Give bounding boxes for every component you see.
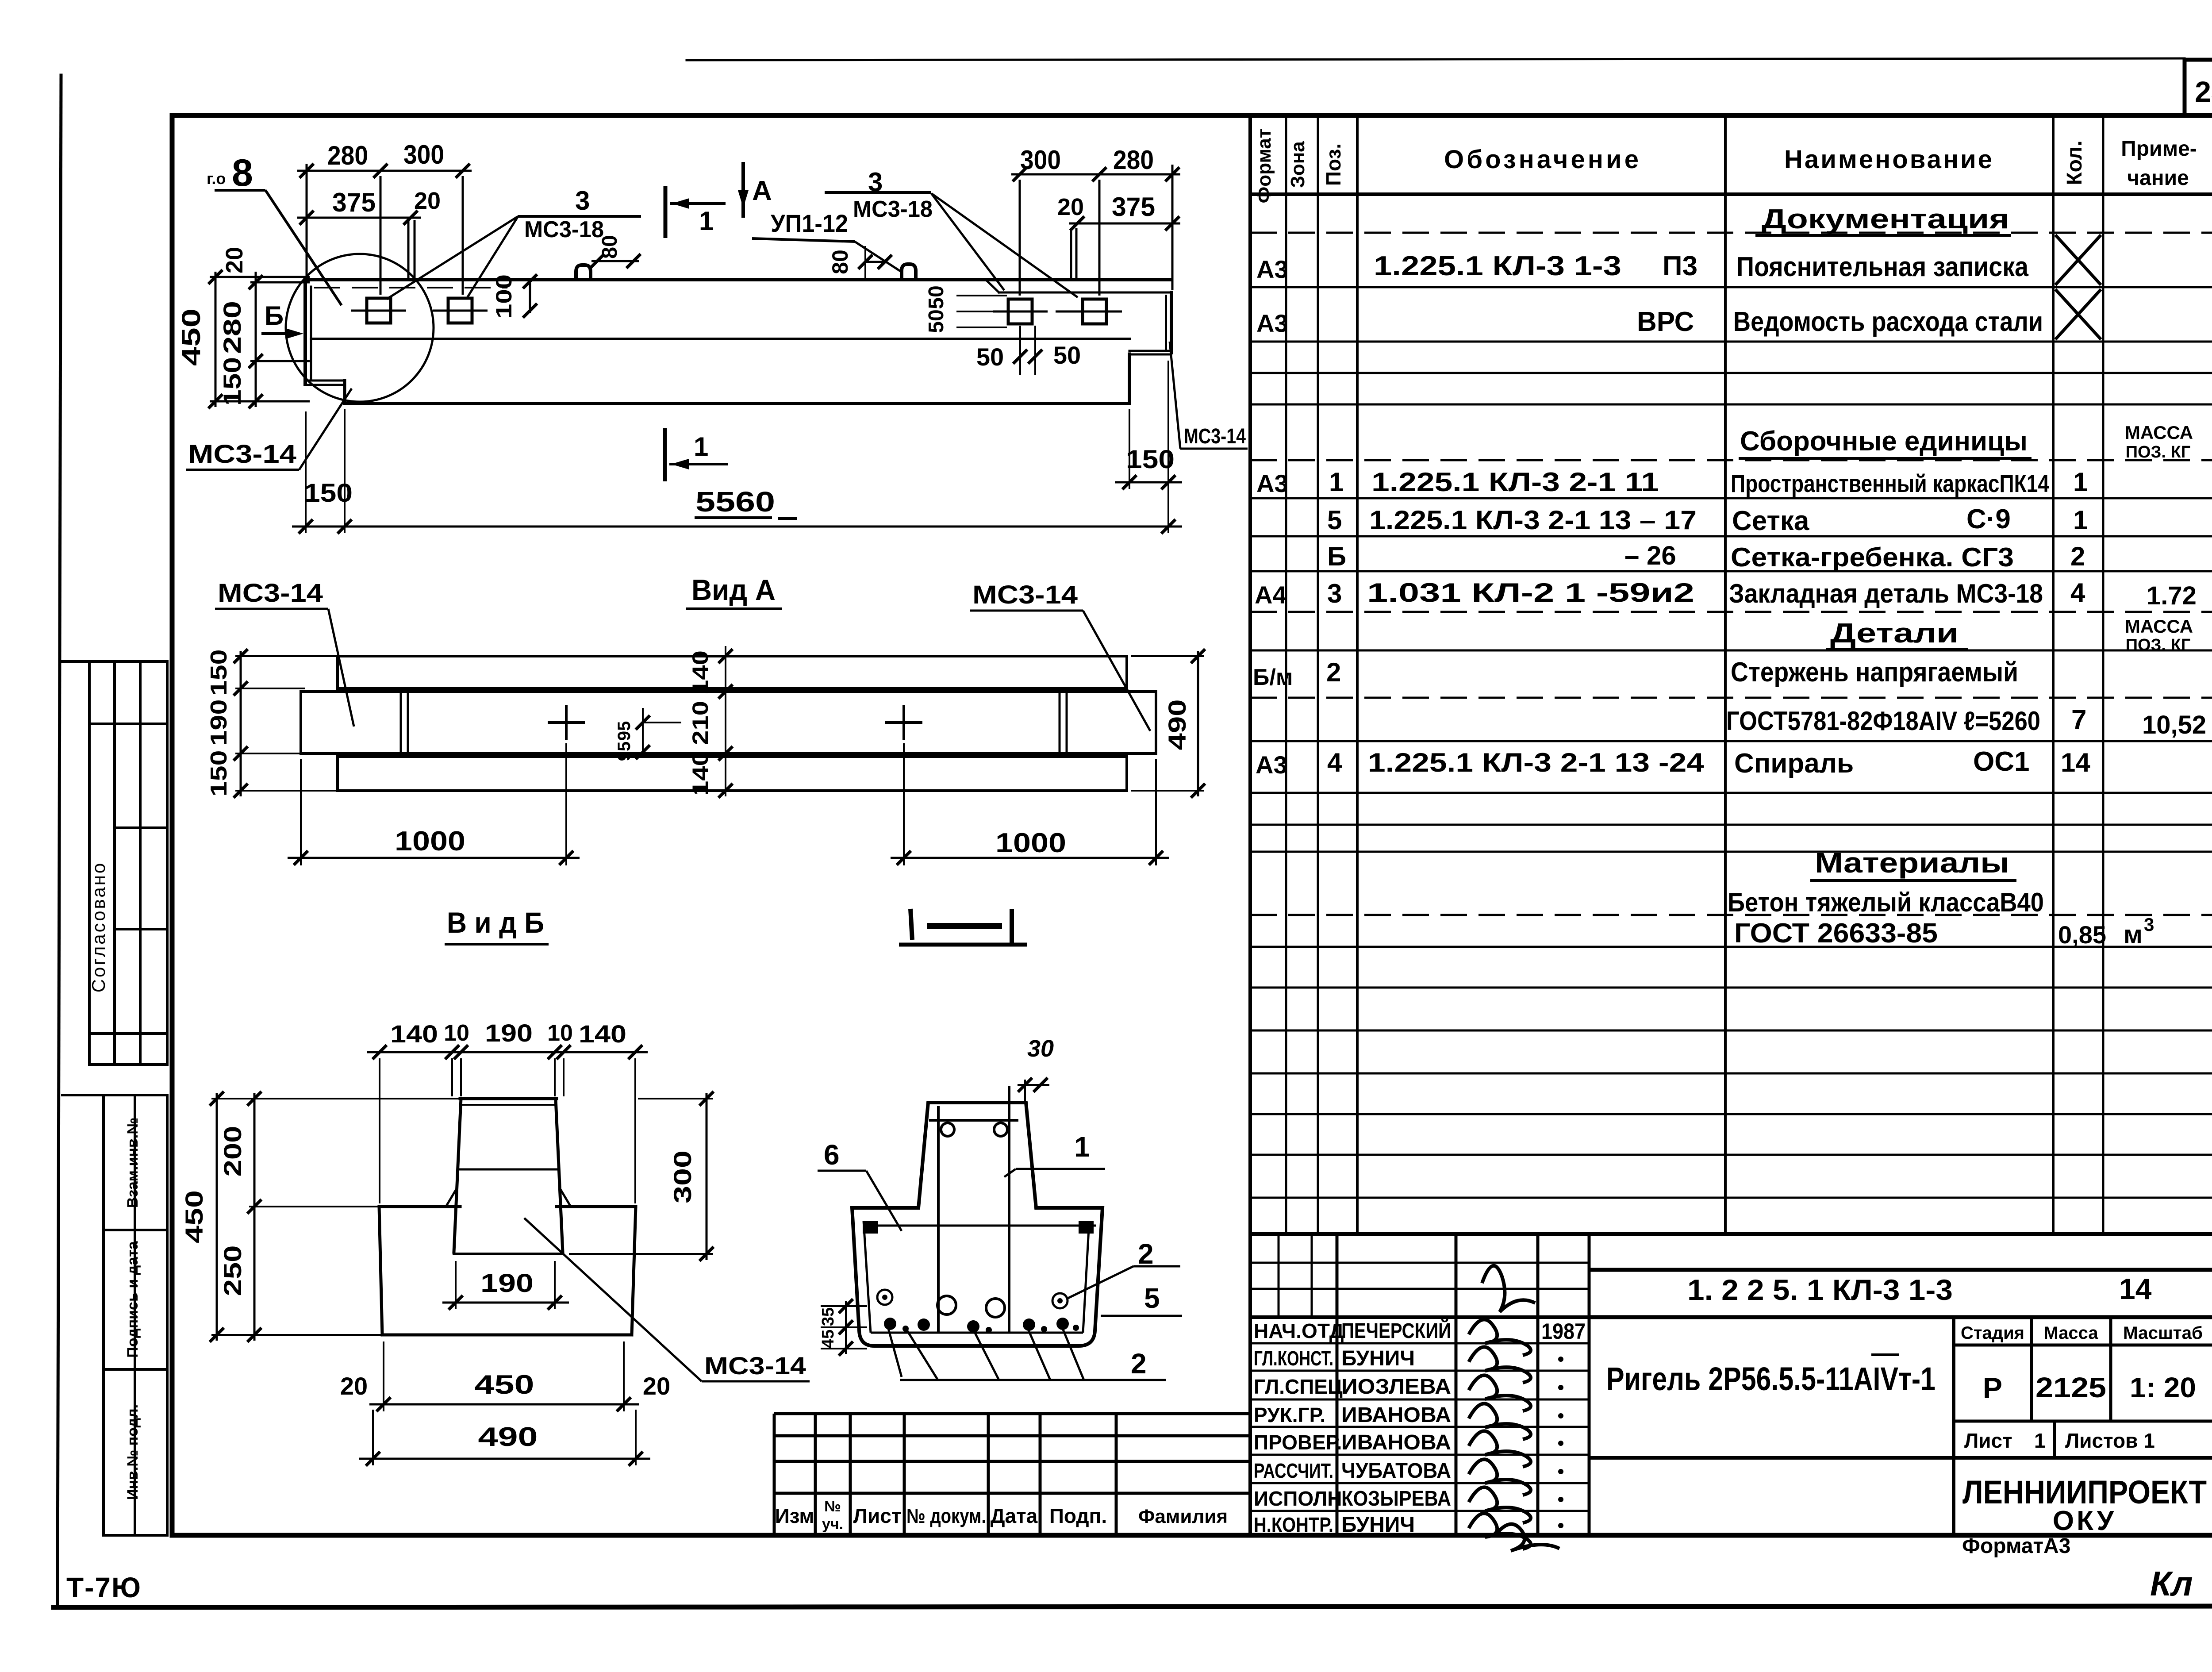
svg-text:МС3-14: МС3-14: [188, 440, 296, 469]
svg-text:Изм: Изм: [775, 1504, 814, 1527]
svg-text:ЛЕННИИПРОЕКТ: ЛЕННИИПРОЕКТ: [1962, 1474, 2207, 1511]
bottom rebar dots: [884, 1318, 896, 1330]
svg-text:4: 4: [1327, 748, 1342, 777]
svg-text:80: 80: [828, 250, 853, 274]
svg-text:Дата: Дата: [991, 1504, 1038, 1527]
svg-text:чание: чание: [2127, 166, 2189, 190]
svg-text:Закладная деталь МС3-18: Закладная деталь МС3-18: [1729, 579, 2043, 608]
svg-text:Б: Б: [265, 301, 284, 331]
svg-text:50: 50: [1053, 341, 1081, 369]
svg-text:Обозначение: Обозначение: [1444, 145, 1639, 174]
svg-text:Поз.: Поз.: [1322, 143, 1345, 186]
svg-text:150: 150: [218, 357, 246, 406]
section inner mesh contour: [863, 1221, 1096, 1333]
svg-text:150: 150: [1126, 445, 1175, 474]
plan left dims 150/190/150: [240, 651, 242, 796]
svg-text:2125: 2125: [2035, 1372, 2106, 1403]
outer left border line: [58, 75, 61, 1606]
flange corner plates: [863, 1221, 878, 1234]
plan dim 1000 right: [903, 743, 905, 865]
svg-text:Согласовано: Согласовано: [88, 861, 109, 993]
svg-text:6: 6: [824, 1139, 840, 1171]
svg-text:10: 10: [444, 1020, 469, 1046]
view B dim 300: [562, 1098, 713, 1099]
svg-text:Стадия: Стадия: [1961, 1323, 2024, 1343]
section mark 1 bottom: [663, 428, 667, 481]
svg-text:№ докум.: № докум.: [906, 1504, 986, 1527]
svg-text:1000: 1000: [995, 828, 1066, 858]
plate MS3-14 plan left: [400, 692, 402, 753]
svg-text:ОКУ: ОКУ: [2053, 1506, 2116, 1536]
svg-text:Б/м: Б/м: [1253, 665, 1293, 690]
svg-text:МС3-18: МС3-18: [853, 196, 933, 222]
svg-text:1: 1: [2073, 467, 2088, 497]
svg-text:5: 5: [1327, 505, 1342, 535]
svg-text:50: 50: [925, 285, 948, 309]
svg-text:ИВАНОВА: ИВАНОВА: [1341, 1403, 1451, 1427]
svg-text:300: 300: [668, 1150, 696, 1203]
embedded plates MS3-18 (elevation): [351, 298, 1122, 324]
svg-text:МС3-14: МС3-14: [218, 579, 323, 607]
svg-text:Документация: Документация: [1762, 204, 2009, 234]
center crosses: [548, 705, 922, 740]
svg-text:Детали: Детали: [1830, 618, 1959, 649]
svg-text:2: 2: [2070, 542, 2085, 571]
svg-text:280: 280: [218, 301, 246, 354]
outer top border line: [687, 58, 2185, 60]
section symbol 1-1: [910, 909, 912, 940]
svg-text:РУК.ГР.: РУК.ГР.: [1254, 1403, 1325, 1426]
plan right dim 490: [1197, 651, 1199, 796]
svg-text:1.031 КЛ-2 1 -59и: 1.031 КЛ-2 1 -59и2: [1367, 578, 1694, 607]
svg-text:1.225.1 КЛ-3 2-1 13 -2: 1.225.1 КЛ-3 2-1 13 -24: [1368, 748, 1705, 777]
svg-text:Н.КОНТР.: Н.КОНТР.: [1254, 1513, 1333, 1536]
svg-text:МАССА: МАССА: [2125, 422, 2193, 443]
svg-text:БУНИЧ: БУНИЧ: [1341, 1513, 1415, 1537]
svg-text:Сетка: Сетка: [1732, 506, 1809, 536]
svg-text:РАССЧИТ.: РАССЧИТ.: [1254, 1459, 1333, 1482]
svg-text:Зона: Зона: [1287, 141, 1309, 188]
svg-text:10: 10: [547, 1020, 573, 1046]
svg-text:ГЛ.СПЕЦ: ГЛ.СПЕЦ: [1254, 1375, 1343, 1398]
lifting loop UP1-12 left: [576, 265, 591, 280]
svg-text:20: 20: [414, 188, 441, 214]
svg-text:3: 3: [575, 186, 590, 215]
svg-text:95: 95: [614, 721, 634, 741]
svg-text:КОЗЫРЕВА: КОЗЫРЕВА: [1341, 1487, 1451, 1511]
svg-text:ГЛ.КОНСТ.: ГЛ.КОНСТ.: [1254, 1347, 1333, 1370]
svg-text:г.о: г.о: [207, 169, 226, 188]
svg-text:250: 250: [219, 1245, 246, 1296]
svg-text:МС3-14: МС3-14: [704, 1352, 806, 1380]
svg-text:450: 450: [180, 1190, 208, 1243]
svg-text:МС3-14: МС3-14: [972, 580, 1078, 609]
svg-text:1.225.1 КЛ-3 2-1 13 – 17: 1.225.1 КЛ-3 2-1 13 – 17: [1369, 505, 1697, 535]
main frame: [172, 115, 2212, 1535]
svg-text:В и д Б: В и д Б: [447, 906, 544, 939]
dim 50/50 below right squares: [1019, 326, 1021, 375]
svg-text:Т-7Ю: Т-7Ю: [66, 1572, 142, 1603]
plan dim 1000 left: [300, 759, 302, 865]
X marks in qty column: [2055, 235, 2101, 339]
svg-text:Подпись и дата: Подпись и дата: [124, 1241, 141, 1358]
svg-text:Стержень напрягаемый: Стержень напрягаемый: [1731, 657, 2018, 688]
svg-text:А4: А4: [1255, 581, 1286, 609]
svg-text:Наименование: Наименование: [1784, 145, 1992, 174]
prestress strand stubs: [408, 220, 1076, 279]
svg-text:ПОЗ. КГ: ПОЗ. КГ: [2126, 443, 2191, 461]
svg-text:БУНИЧ: БУНИЧ: [1341, 1347, 1415, 1370]
view B dim 490: [372, 1410, 374, 1465]
dim 80 left: [591, 260, 639, 262]
svg-text:4: 4: [2070, 578, 2085, 607]
svg-text:МАССА: МАССА: [2125, 616, 2193, 637]
svg-text:80: 80: [598, 235, 622, 258]
detail circle 8: [286, 254, 434, 402]
svg-text:2: 2: [1138, 1238, 1154, 1270]
svg-text:А3: А3: [1256, 469, 1288, 497]
svg-text:2: 2: [1131, 1348, 1147, 1380]
svg-text:1: 1: [2034, 1429, 2046, 1452]
svg-text:2: 2: [1326, 657, 1341, 687]
svg-text:100: 100: [492, 274, 516, 319]
svg-text:Пояснительная записка: Пояснительная записка: [1736, 252, 2028, 282]
svg-text:Кол.: Кол.: [2063, 140, 2086, 185]
section stirrup legs: [937, 1106, 940, 1333]
svg-text:Лист: Лист: [853, 1504, 902, 1527]
svg-text:490: 490: [1163, 700, 1191, 750]
dim 50 50 rotated (right squares vertical): [956, 296, 1007, 327]
svg-text:375: 375: [332, 188, 376, 217]
svg-text:ПОЗ. КГ: ПОЗ. КГ: [2126, 636, 2191, 654]
svg-text:30: 30: [1027, 1035, 1054, 1062]
svg-text:ПРОВЕР.: ПРОВЕР.: [1254, 1431, 1342, 1454]
svg-text:№: №: [824, 1498, 841, 1515]
svg-text:375: 375: [1112, 192, 1155, 222]
svg-text:35: 35: [819, 1307, 837, 1326]
svg-text:МС3-18: МС3-18: [524, 217, 604, 242]
svg-text:ЧУБАТОВА: ЧУБАТОВА: [1341, 1459, 1451, 1483]
svg-text:190: 190: [485, 1019, 533, 1047]
svg-text:450: 450: [177, 308, 206, 366]
svg-text:Формат: Формат: [1253, 129, 1275, 204]
svg-text:3: 3: [2144, 914, 2154, 935]
svg-text:Спираль: Спираль: [1734, 748, 1854, 779]
svg-text:10,52: 10,52: [2142, 711, 2206, 739]
svg-text:280: 280: [327, 141, 368, 170]
svg-text:20: 20: [643, 1372, 670, 1400]
svg-text:ИСПОЛН.: ИСПОЛН.: [1254, 1487, 1348, 1510]
svg-text:190: 190: [480, 1269, 534, 1298]
lifting loop UP1-12 right: [902, 264, 916, 280]
svg-text:П3: П3: [1663, 251, 1697, 281]
view B left dims 450 / 200+250: [211, 1093, 460, 1341]
section mark A top: [741, 162, 745, 218]
svg-text:150: 150: [206, 650, 232, 696]
svg-text:300: 300: [403, 140, 444, 169]
svg-text:45: 45: [819, 1330, 837, 1348]
view B dim 190: [455, 1261, 457, 1309]
svg-text:150: 150: [206, 750, 232, 797]
svg-text:5560: 5560: [695, 486, 775, 518]
spec table grid: [1250, 115, 2212, 1535]
svg-text:А3: А3: [1256, 309, 1288, 337]
svg-text:5: 5: [1144, 1282, 1160, 1314]
svg-text:Подп.: Подп.: [1049, 1504, 1107, 1527]
view B dim 450 bottom: [383, 1341, 384, 1411]
section mark 1 top: [664, 186, 668, 238]
svg-text:Фамилия: Фамилия: [1138, 1506, 1228, 1527]
svg-text:210: 210: [688, 701, 713, 745]
svg-text:490: 490: [478, 1422, 538, 1452]
svg-text:Б: Б: [1327, 542, 1346, 571]
svg-text:Инв.№ подл.: Инв.№ подл.: [124, 1404, 141, 1500]
svg-text:Бетон тяжелый классаВ40: Бетон тяжелый классаВ40: [1728, 888, 2044, 917]
svg-text:Ведомость расхода стали: Ведомость расхода стали: [1733, 307, 2043, 337]
stamp table grid: [1250, 1234, 1589, 1535]
fan leader lines to spiral label: [887, 1324, 1166, 1380]
view B top dims 140 10 190 10 140: [367, 1051, 648, 1053]
svg-text:1: 1: [1074, 1131, 1090, 1163]
svg-text:140: 140: [390, 1020, 438, 1048]
svg-text:ФорматА3: ФорматА3: [1962, 1534, 2070, 1558]
dim 100: [529, 278, 531, 313]
dim 5560: [292, 526, 1182, 528]
svg-text:ИВАНОВА: ИВАНОВА: [1341, 1431, 1451, 1454]
svg-text:А: А: [752, 176, 772, 206]
svg-text:1.225.1 КЛ-3 2-1 11: 1.225.1 КЛ-3 2-1 11: [1371, 467, 1659, 497]
svg-text:Взам.инв.№: Взам.инв.№: [124, 1118, 141, 1208]
svg-text:Масса: Масса: [2043, 1323, 2098, 1343]
section 1-1 outline: [852, 1103, 1102, 1346]
svg-text:Масштаб: Масштаб: [2123, 1323, 2203, 1343]
svg-text:ВРС: ВРС: [1637, 307, 1694, 337]
svg-text:Р: Р: [1983, 1372, 2002, 1404]
svg-text:1: 1: [2073, 505, 2088, 535]
svg-text:50: 50: [925, 309, 948, 333]
svg-text:1. 2 2 5. 1 КЛ-3 1-3: 1. 2 2 5. 1 КЛ-3 1-3: [1687, 1273, 1953, 1306]
svg-text:А3: А3: [1256, 751, 1287, 779]
svg-text:Лист: Лист: [1964, 1429, 2012, 1452]
svg-text:1: 1: [694, 432, 708, 461]
plate MS3-14 plan right: [1059, 692, 1061, 753]
svg-text:ГОСТ 26633-85: ГОСТ 26633-85: [1734, 918, 1938, 949]
svg-text:УП1-12: УП1-12: [771, 209, 848, 237]
svg-text:Приме-: Приме-: [2121, 137, 2197, 161]
view B end elevation: [379, 1099, 636, 1335]
bottom strand circles: [937, 1296, 1005, 1317]
svg-text:– 26: – 26: [1624, 541, 1676, 570]
svg-text:С·9: С·9: [1966, 504, 2011, 534]
svg-text:Ригель 2Р56.5.5-11АIVт-1: Ригель 2Р56.5.5-11АIVт-1: [1606, 1361, 1935, 1397]
svg-text:МС3-14: МС3-14: [1184, 425, 1246, 448]
svg-text:1987: 1987: [1541, 1319, 1586, 1344]
beam elevation: [305, 280, 1171, 404]
svg-text:1: 1: [699, 206, 714, 236]
svg-text:20: 20: [1057, 194, 1084, 220]
left height dim chain 450=20+280+150: [210, 272, 310, 407]
dim 150 right bottom: [1129, 409, 1130, 489]
svg-text:3: 3: [1327, 579, 1342, 608]
svg-text:7: 7: [2071, 705, 2086, 735]
svg-text:м: м: [2124, 920, 2143, 949]
section top bar line and bars: [929, 1119, 1018, 1122]
svg-text:140: 140: [579, 1020, 626, 1048]
svg-text:95: 95: [614, 742, 634, 761]
svg-text:190: 190: [206, 700, 232, 746]
svg-text:140: 140: [688, 751, 713, 796]
svg-text:уч.: уч.: [822, 1516, 843, 1533]
svg-text:200: 200: [219, 1126, 246, 1177]
page number box: [2185, 60, 2212, 115]
svg-text:1000: 1000: [395, 826, 465, 857]
svg-text:50: 50: [976, 343, 1004, 371]
svg-text:8: 8: [232, 152, 253, 194]
soglasovano block: [61, 661, 167, 1065]
svg-text:450: 450: [475, 1370, 534, 1399]
svg-text:23: 23: [2195, 75, 2212, 108]
svg-text:150: 150: [304, 479, 353, 507]
svg-text:Пространственный каркасПК14: Пространственный каркасПК14: [1731, 469, 2049, 497]
plan view bands: [301, 656, 1156, 791]
svg-text:14: 14: [2061, 748, 2090, 777]
svg-text:НАЧ.ОТД: НАЧ.ОТД: [1254, 1319, 1344, 1342]
dim 280/300 top-left: [297, 164, 472, 295]
svg-text:Сетка-гребенка. СГ3: Сетка-гребенка. СГ3: [1731, 542, 2014, 572]
svg-text:Кл: Кл: [2150, 1564, 2193, 1603]
svg-text:14: 14: [2119, 1272, 2152, 1305]
dim 80 right: [864, 261, 887, 263]
svg-text:1: 1: [1329, 467, 1344, 497]
svg-text:1: 20: 1: 20: [2130, 1372, 2196, 1403]
svg-text:Вид А: Вид А: [691, 573, 776, 606]
svg-text:1.225.1 КЛ-3 1-3: 1.225.1 КЛ-3 1-3: [1374, 251, 1621, 281]
svg-text:0,85: 0,85: [2058, 921, 2106, 949]
svg-text:140: 140: [688, 650, 713, 695]
revision table grid: [774, 1414, 1250, 1535]
svg-text:300: 300: [1020, 145, 1061, 175]
svg-text:20: 20: [221, 247, 248, 273]
svg-text:ОС1: ОС1: [1973, 746, 2029, 777]
title block grid: [1589, 1270, 2212, 1535]
dim 300/280 top-right: [1011, 165, 1180, 296]
svg-text:А3: А3: [1256, 255, 1288, 283]
lower margin block: [61, 1095, 167, 1535]
outer bottom border line: [54, 1606, 2212, 1607]
svg-text:1.72: 1.72: [2147, 581, 2197, 610]
svg-text:Сборочные единицы: Сборочные единицы: [1740, 426, 2028, 457]
svg-text:Листов 1: Листов 1: [2065, 1429, 2155, 1452]
svg-text:ГОСТ5781-82Ф18АIV ℓ=5260: ГОСТ5781-82Ф18АIV ℓ=5260: [1726, 706, 2040, 736]
svg-text:Материалы: Материалы: [1815, 847, 2009, 879]
svg-text:ИОЗЛЕВА: ИОЗЛЕВА: [1341, 1375, 1451, 1399]
svg-text:ПЕЧЕРСКИЙ: ПЕЧЕРСКИЙ: [1341, 1318, 1451, 1343]
dim 150 left bottom: [305, 411, 307, 533]
dims 35 45: [845, 1301, 847, 1354]
svg-text:20: 20: [340, 1372, 368, 1400]
signatures: [1469, 1319, 1531, 1355]
svg-text:280: 280: [1113, 145, 1154, 175]
